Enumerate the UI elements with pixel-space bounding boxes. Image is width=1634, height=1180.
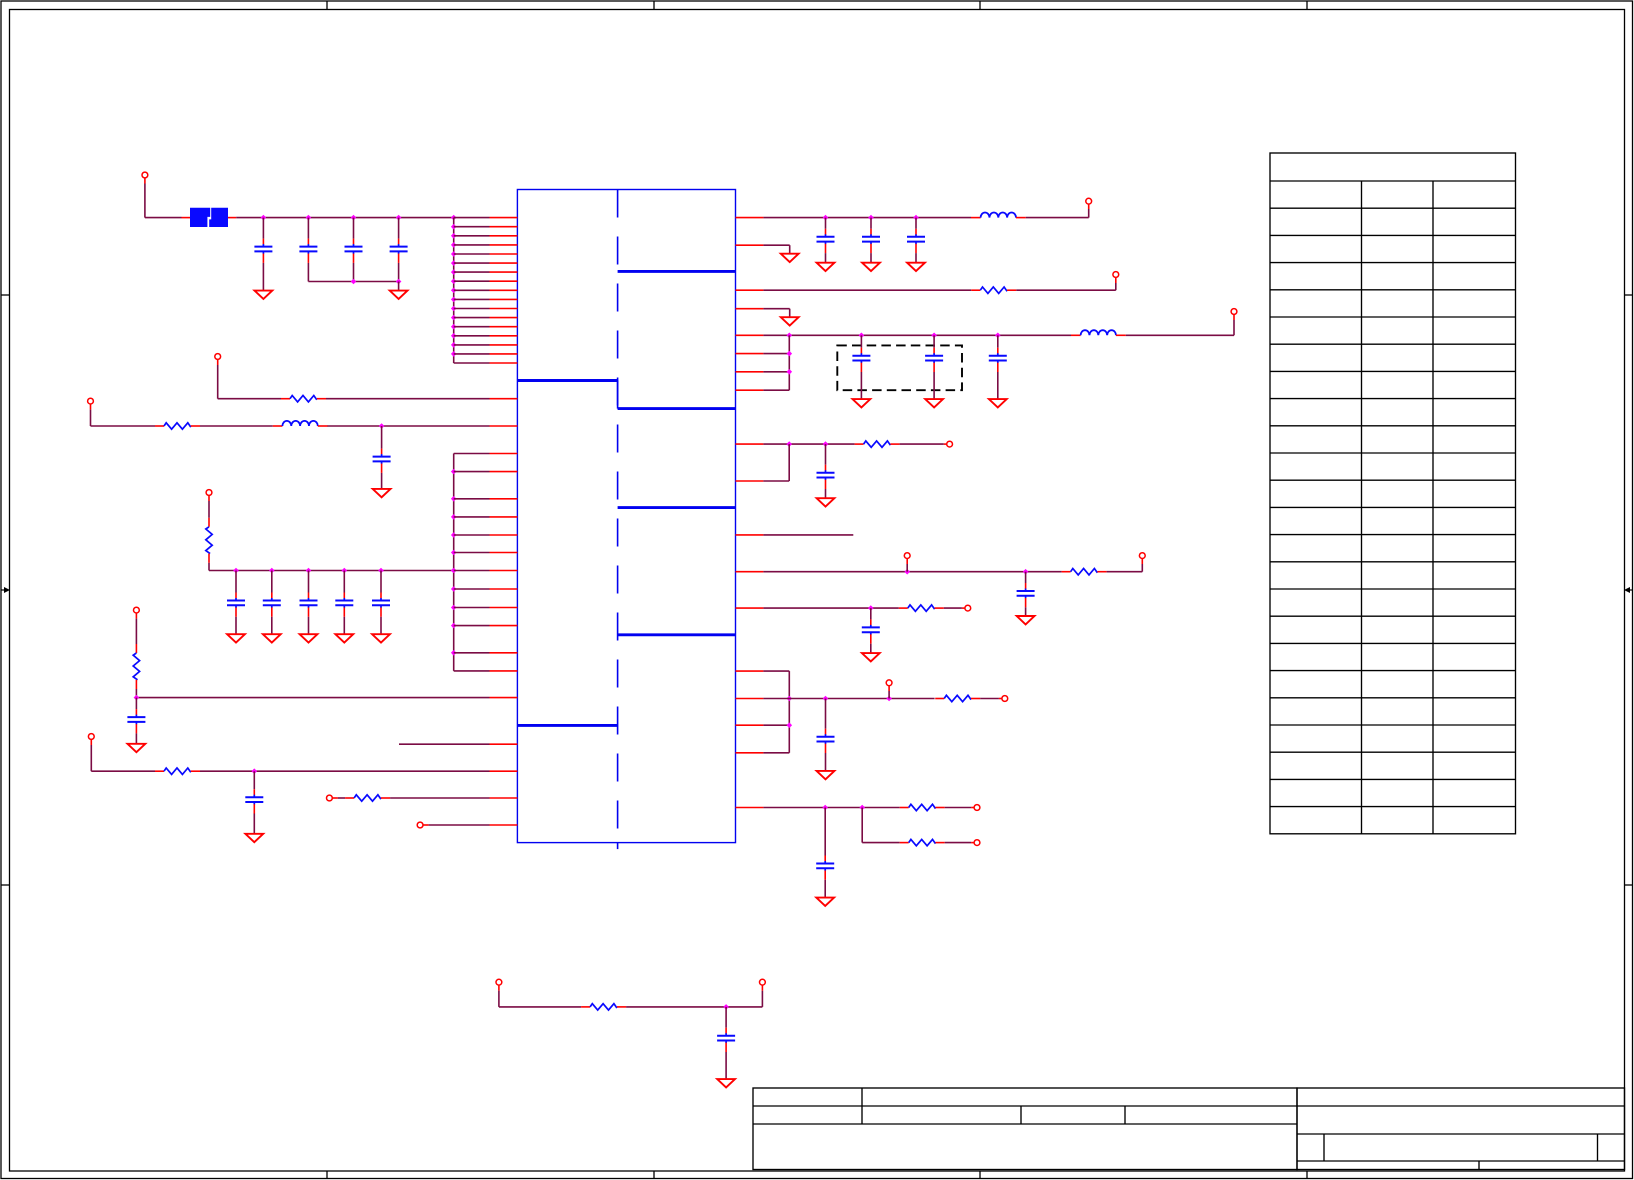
wire [200,770,490,772]
wire [945,807,974,809]
IC U1 left pin 25 [490,552,518,554]
ground [245,834,263,842]
ground [390,291,408,299]
port P1 [142,172,148,178]
ground [862,653,880,661]
IC U1 internal divider left lower [517,724,617,727]
IC U1 left pin 30 [490,652,518,654]
IC U1 left pin 11 [490,308,518,310]
IC U1 right pin 9 [736,443,764,445]
ground [717,1079,735,1087]
port P18 [974,805,980,811]
IC U1 right pin 10 [736,480,764,482]
wire [1107,559,1143,572]
capacitor C17 [925,335,943,399]
IC U1 left pin 14 [490,335,518,337]
IC U1 left pin 19 [490,425,518,427]
IC U1 internal divider right 1 [618,270,736,273]
inductor L3 [1071,330,1126,335]
node [252,768,258,774]
resistor R5 [155,768,200,774]
inductor L1 [273,421,328,426]
capacitor C6 [227,571,245,635]
wire bus [453,218,455,363]
node [723,1004,729,1010]
node [233,568,456,574]
port P7 [327,795,333,801]
node [868,605,874,611]
IC U1 right pin 17 [736,752,764,754]
node [904,569,1028,575]
port P17 [1002,696,1008,702]
capacitor C23 [816,808,834,898]
capacitor C9 [335,571,353,635]
capacitor C12 [245,771,263,834]
wire [761,985,763,1007]
IC U1 right pin 13 [736,607,764,609]
port P11 [1231,309,1237,315]
IC U1 left pin 5 [490,253,518,255]
IC U1 right pin 15 [736,698,764,700]
ground [816,898,834,906]
capacitor C10 [372,571,390,635]
IC U1 left pin 27 [490,588,518,590]
port P10 [1113,272,1119,278]
IC U1 left pin 34 [490,770,518,772]
wire [763,289,971,291]
IC U1 right pin 1 [736,217,764,219]
node [351,279,402,285]
ground [227,634,245,642]
IC U1 left pin 22 [490,498,518,500]
ground [1017,616,1035,624]
wire [763,334,1071,336]
capacitor C1 [254,218,272,291]
resistor R3 [206,518,212,563]
wire [626,1006,762,1008]
wire [423,824,490,826]
IC U1 internal divider right 2 [618,407,736,410]
IC U1 left pin 1 [490,217,518,219]
port P5 [134,607,140,613]
ground [925,399,943,407]
IC U1 left pin 36 [490,824,518,826]
wire [1016,277,1116,290]
IC U1 left pin 31 [490,670,518,672]
capacitor C16 [852,335,870,399]
node [823,215,919,221]
IC U1 body outline [517,190,735,843]
fuse F1 [182,208,237,227]
wire bus [453,454,455,671]
resistor R8 [855,441,900,447]
IC U1 left pin 3 [490,235,518,237]
capacitor C4 [390,218,408,282]
wire [980,698,1002,700]
IC U1 left pin 9 [490,289,518,291]
ground [862,263,880,271]
ground [373,489,391,497]
port P9 [1086,198,1092,204]
resistor R12 [900,804,945,810]
IC U1 right pin 2 [736,244,764,246]
IC U1 left pin 4 [490,244,518,246]
resistor R13 [900,839,945,845]
wire [135,613,137,644]
port P19 [974,840,980,846]
capacitor C13 [817,218,835,263]
capacitor C3 [345,218,363,282]
wire [763,698,934,700]
capacitor C20 [1017,572,1035,616]
IC U1 left pin 17 [490,362,518,364]
wire [1126,314,1234,335]
resistor R10 [899,605,944,611]
port P8 [417,822,423,828]
capacitor C22 [817,699,835,771]
wire [236,217,454,219]
wire [945,842,974,844]
IC U1 left pin 10 [490,298,518,300]
resistor R14 [581,1004,626,1010]
IC U1 left pin 26 [490,570,518,572]
wire [454,454,490,671]
wire [862,808,900,843]
node [822,805,865,811]
IC U1 left pin 28 [490,607,518,609]
resistor R4 [133,644,139,689]
ground [907,263,925,271]
IC U1 left pin 13 [490,326,518,328]
IC U1 left pin 33 [490,743,518,745]
IC U1 left pin 12 [490,317,518,319]
wire [145,178,182,218]
port P4 [206,490,212,496]
wire [763,444,789,481]
port P6 [88,734,94,740]
IC U1 left pin 21 [490,471,518,473]
IC U1 right pin 7 [736,371,764,373]
ground [255,291,273,299]
wire [906,559,908,572]
port P2 [215,354,221,360]
IC U1 left pin 35 [490,797,518,799]
IC U1 right pin 3 [736,289,764,291]
IC U1 left pin 6 [490,262,518,264]
node [787,351,793,375]
resistor R9 [1062,569,1107,575]
ground [817,498,835,506]
IC U1 right pin 12 [736,571,764,573]
title block left section [753,1088,1297,1170]
capacitor C19 [817,444,835,498]
resistor R6 [345,795,390,801]
capacitor C21 [862,608,880,653]
wire [763,571,1061,573]
ground [781,317,799,325]
capacitor C24 [717,1007,735,1079]
title block right section [1297,1088,1625,1170]
IC U1 left pin 7 [490,271,518,273]
ground [817,263,835,271]
wire [218,359,281,398]
IC U1 internal divider right 3 [618,506,736,509]
node [787,696,793,728]
node [261,215,457,221]
wire [200,425,273,427]
wire [454,218,490,363]
IC U1 right pin 14 [736,670,764,672]
IC U1 left pin 29 [490,625,518,627]
port P12 [947,441,953,447]
IC U1 centre dashed line [617,190,619,850]
ground [853,399,871,407]
IC U1 right pin 18 [736,807,764,809]
port P14 [1139,553,1145,559]
port P15 [965,605,971,611]
border centre arrows [1,587,1633,593]
IC U1 internal divider left upper [517,379,617,382]
wire [763,443,854,445]
resistor R1 [281,396,326,402]
wire [332,797,345,799]
IC U1 left pin 24 [490,534,518,536]
wire [209,563,454,571]
node [379,423,385,429]
port P16 [886,680,892,686]
wire [398,282,400,291]
wire [499,985,581,1007]
ground [372,634,390,642]
IC U1 right pin 6 [736,353,764,355]
wire [944,607,965,609]
capacitor C8 [300,571,318,635]
wire [763,534,853,536]
IC U1 internal divider right 4 [618,633,736,636]
wire [763,607,898,609]
wire [91,739,155,771]
node [787,333,1001,339]
wire [763,671,789,753]
IC U1 right pin 16 [736,724,764,726]
ground [989,399,1007,407]
port P20 [496,979,502,985]
port P3 [88,398,94,404]
resistor R2 [155,423,200,429]
node [134,695,140,701]
wire [326,398,490,400]
ground [263,634,281,642]
node [786,441,828,447]
resistor R7 [971,287,1016,293]
IC U1 left pin 15 [490,344,518,346]
node [451,224,457,357]
IC U1 left pin 16 [490,353,518,355]
port P21 [760,979,766,985]
ground [335,634,353,642]
capacitor C7 [263,571,281,635]
capacitor C15 [907,218,925,263]
ground [128,744,146,752]
ground [300,634,318,642]
wire [399,743,490,745]
IC U1 right pin 11 [736,534,764,536]
IC U1 right pin 5 [736,334,764,336]
wire [763,807,899,809]
ground [781,254,799,262]
capacitor C18 [989,335,1007,399]
IC U1 left pin 8 [490,280,518,282]
wire [763,309,789,318]
IC U1 left pin 18 [490,398,518,400]
IC U1 left pin 23 [490,516,518,518]
capacitor C11 [127,698,145,744]
wire [1026,204,1089,218]
capacitor C2 [299,218,317,282]
capacitor C14 [862,218,880,263]
IC U1 left pin 32 [490,697,518,699]
wire [763,335,789,390]
wire [900,443,947,445]
IC U1 right pin 8 [736,389,764,391]
IC U1 left pin 20 [490,453,518,455]
wire [136,689,489,698]
wire [763,245,789,254]
wire [91,404,156,426]
wire [308,281,398,283]
IC U1 right pin 4 [736,308,764,310]
inductor L2 [971,212,1026,217]
node [451,469,457,656]
wire [208,495,210,517]
port P13 [904,553,910,559]
IC U1 left pin 2 [490,226,518,228]
ground [817,771,835,779]
wire [327,425,489,427]
revision history table (empty) [1270,153,1516,834]
wire [390,797,489,799]
resistor R11 [935,695,980,701]
capacitor C5 [373,426,391,489]
wire [763,217,971,219]
wire [888,686,890,699]
node [823,696,892,702]
dashed group box [837,345,962,390]
